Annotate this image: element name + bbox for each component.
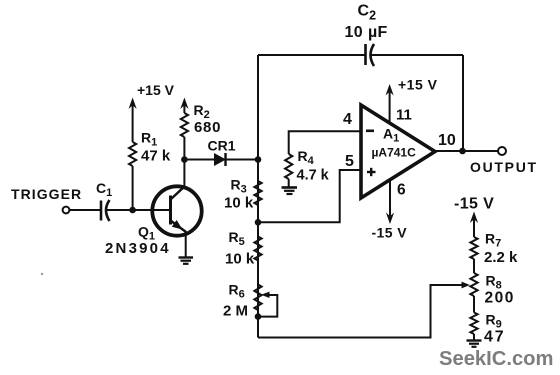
wire: R8 wiper arrow bbox=[462, 282, 471, 289]
svg-text:µA741C: µA741C bbox=[372, 146, 417, 160]
svg-text:OUTPUT: OUTPUT bbox=[470, 159, 538, 175]
node: junction R6 bottom / wiper return bbox=[255, 313, 262, 320]
svg-text:47: 47 bbox=[484, 329, 505, 346]
wire: R4 bottom to ground bbox=[288, 179, 290, 187]
svg-text:2 M: 2 M bbox=[223, 303, 248, 320]
op-amp minus input mark bbox=[366, 130, 374, 133]
svg-text:+15 V: +15 V bbox=[398, 77, 438, 93]
svg-text:2.2 k: 2.2 k bbox=[484, 249, 518, 266]
svg-text:10 µF: 10 µF bbox=[345, 24, 388, 41]
svg-text:10 k: 10 k bbox=[224, 195, 254, 212]
svg-text:4: 4 bbox=[343, 111, 352, 128]
wire: C1 to base of Q1 bbox=[106, 209, 169, 211]
power -15V arrow (pin 6) bbox=[386, 179, 394, 224]
capacitor C1 bbox=[101, 200, 110, 221]
node: output junction bbox=[459, 148, 466, 155]
svg-text:47 k: 47 k bbox=[141, 148, 171, 165]
power +15V arrow for R1 bbox=[129, 98, 137, 143]
svg-text:CR1: CR1 bbox=[208, 138, 236, 154]
potentiometer R6 bbox=[254, 285, 261, 311]
svg-text:+15 V: +15 V bbox=[137, 82, 175, 98]
op-amp A1 bbox=[361, 105, 435, 198]
op-amp plus input mark bbox=[367, 168, 376, 176]
wire: top feedback run, left of C2 bbox=[258, 54, 366, 56]
node: TRIGGER input terminal bbox=[63, 207, 70, 214]
wire: bottom run to R8 wiper bbox=[258, 285, 463, 338]
svg-text:6: 6 bbox=[397, 182, 406, 199]
wire: R7 to R8 bbox=[473, 259, 475, 273]
power +15V arrow for R2 bbox=[180, 98, 188, 114]
node: junction R3/R5/pin5 wire bbox=[255, 219, 262, 226]
wire: top feedback run, right of C2 bbox=[371, 54, 463, 56]
ground (Q1 emitter) bbox=[179, 258, 194, 264]
svg-text:680: 680 bbox=[194, 119, 221, 136]
power -15V arrow (R7 top) bbox=[470, 212, 478, 238]
svg-text:10 k: 10 k bbox=[225, 251, 255, 268]
svg-text:-15 V: -15 V bbox=[372, 225, 408, 241]
wire: rail junction to pin 5 route bbox=[258, 170, 362, 222]
wire: left feedback rail (x=258, y=55..337.5) bbox=[257, 55, 259, 338]
wire: trigger to C1 bbox=[70, 209, 101, 211]
resistor R4 bbox=[285, 154, 292, 179]
resistor R3 bbox=[254, 181, 261, 205]
resistor R5 bbox=[254, 237, 261, 261]
svg-text:2N3904: 2N3904 bbox=[105, 240, 171, 257]
node: junction CR1/rail bbox=[255, 156, 262, 163]
resistor R7 bbox=[470, 237, 477, 259]
wire: output bbox=[435, 150, 498, 152]
potentiometer R8 bbox=[470, 273, 477, 296]
svg-text:SeekIC.com: SeekIC.com bbox=[439, 348, 553, 370]
power +15V arrow (pin 11) bbox=[386, 84, 394, 123]
wire: pin 4 route to R4 bbox=[289, 131, 362, 154]
svg-text:11: 11 bbox=[396, 107, 412, 124]
node: OUTPUT terminal bbox=[498, 147, 506, 155]
wire: collector up to junction bbox=[183, 160, 185, 188]
transistor Q1 bbox=[152, 186, 201, 236]
wire: R2 bottom to collector junction bbox=[183, 137, 185, 160]
diode CR1 bbox=[184, 153, 258, 166]
svg-text:TRIGGER: TRIGGER bbox=[11, 186, 82, 202]
ground (R4) bbox=[282, 188, 298, 195]
capacitor C2 bbox=[366, 44, 375, 66]
wire: R8 to R9 bbox=[473, 296, 475, 313]
svg-text:4.7 k: 4.7 k bbox=[297, 168, 330, 184]
wire: emitter down to ground bbox=[185, 231, 187, 257]
node: junction R1/base bbox=[129, 207, 136, 214]
wire: R1 bottom to base junction bbox=[132, 166, 134, 210]
svg-text:10: 10 bbox=[438, 132, 456, 149]
ground (R9) bbox=[467, 341, 482, 347]
speck bbox=[41, 273, 43, 275]
svg-text:5: 5 bbox=[345, 153, 354, 170]
svg-text:-15 V: -15 V bbox=[454, 196, 494, 213]
svg-text:200: 200 bbox=[485, 290, 515, 307]
resistor R9 bbox=[470, 313, 477, 335]
wire: R9 to ground bbox=[473, 334, 475, 340]
node: junction R2/collector/CR1 bbox=[181, 156, 188, 163]
wire: right feedback drop to output node bbox=[462, 55, 464, 151]
resistor R1 bbox=[129, 142, 136, 166]
resistor R2 bbox=[181, 113, 188, 137]
wire: R6 wiper loop bbox=[258, 292, 277, 317]
